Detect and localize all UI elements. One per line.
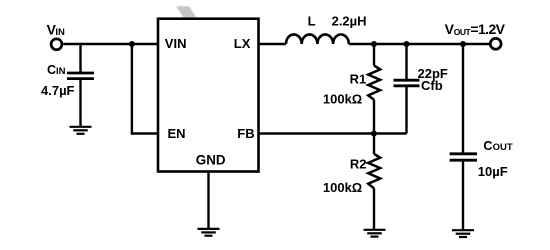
resistor R2 xyxy=(368,134,380,230)
node VOUT=1.2V xyxy=(445,21,506,37)
svg-text:GND: GND xyxy=(196,153,226,168)
terminal VIN xyxy=(51,39,62,50)
svg-text:100kΩ: 100kΩ xyxy=(323,180,362,195)
wire output net xyxy=(349,43,490,45)
resistor R1 xyxy=(368,44,380,134)
svg-text:IN: IN xyxy=(56,66,66,77)
svg-text:10µF: 10µF xyxy=(478,164,508,179)
svg-text:LX: LX xyxy=(234,36,251,51)
value label 2.2uH xyxy=(332,13,367,28)
pin EN xyxy=(168,126,186,141)
resistor R1 ref label xyxy=(350,72,367,87)
wire IC GND xyxy=(207,172,209,229)
svg-text:IN: IN xyxy=(55,27,65,38)
capacitor CIN xyxy=(67,44,94,127)
junction output R1 xyxy=(371,41,377,47)
svg-text:EN: EN xyxy=(168,126,186,141)
wire EN connection xyxy=(132,44,158,134)
value label 10uF xyxy=(478,164,508,179)
pin VIN xyxy=(165,36,187,51)
capacitor CIN ref label xyxy=(47,63,66,77)
svg-text:100kΩ: 100kΩ xyxy=(323,92,362,107)
inductor L ref label xyxy=(308,13,316,28)
wire FB feedback xyxy=(259,132,407,134)
junction FB node xyxy=(371,131,377,137)
svg-text:2.2µH: 2.2µH xyxy=(332,13,367,28)
pin FB xyxy=(237,126,254,141)
pin GND xyxy=(196,153,226,168)
svg-text:R2: R2 xyxy=(350,156,367,171)
value label 100kOhm R1 xyxy=(323,92,362,107)
svg-text:OUT: OUT xyxy=(493,142,513,153)
wire input to VIN pin xyxy=(63,43,158,45)
terminal VOUT xyxy=(490,38,501,49)
value label 100kOhm R2 xyxy=(323,180,362,195)
junction output COUT xyxy=(460,41,466,47)
svg-text:Cfb: Cfb xyxy=(421,78,443,93)
inductor L xyxy=(286,34,349,44)
ground R2 xyxy=(364,230,386,237)
svg-text:FB: FB xyxy=(237,126,254,141)
capacitor Cfb xyxy=(394,44,420,134)
junction output Cfb xyxy=(404,41,410,47)
wire LX to inductor xyxy=(259,43,287,45)
capacitor Cfb ref label xyxy=(421,78,443,93)
IC U1 buck converter xyxy=(158,19,259,172)
svg-text:R1: R1 xyxy=(350,72,367,87)
ground COUT xyxy=(452,230,474,237)
svg-text:L: L xyxy=(308,13,316,28)
resistor R2 ref label xyxy=(350,156,367,171)
svg-text:OUT: OUT xyxy=(454,27,472,37)
junction input node xyxy=(129,41,135,47)
capacitor COUT ref label xyxy=(483,139,512,153)
capacitor COUT xyxy=(450,44,477,230)
svg-text:VIN: VIN xyxy=(165,36,187,51)
pin LX xyxy=(234,36,251,51)
svg-text:C: C xyxy=(483,139,492,153)
ground input xyxy=(70,127,92,134)
svg-text:C: C xyxy=(47,63,56,77)
value label 22pF xyxy=(418,66,448,81)
value label 4.7uF xyxy=(41,83,75,98)
svg-text:4.7µF: 4.7µF xyxy=(41,83,75,98)
node VIN xyxy=(47,22,65,38)
svg-text:=1.2V: =1.2V xyxy=(470,21,505,37)
ground IC xyxy=(198,229,220,236)
